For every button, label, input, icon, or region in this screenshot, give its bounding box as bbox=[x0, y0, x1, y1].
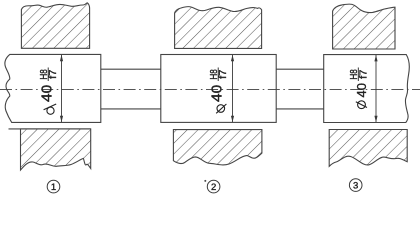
wall s1 top (hatched block) bbox=[21, 3, 89, 49]
callout circle 3 bbox=[349, 179, 362, 192]
svg-text:40: 40 bbox=[40, 85, 56, 102]
centerline (shaft axis) bbox=[0, 89, 420, 91]
arrowheads dimension 1 bbox=[60, 55, 63, 61]
wall s2 bottom (hatched block) bbox=[173, 130, 262, 165]
dimension line section 1 bbox=[61, 55, 63, 122]
svg-text:40: 40 bbox=[210, 85, 226, 102]
wire shaft segment between section 1 and 2 (bottom line) bbox=[101, 108, 161, 110]
dimension label section 1: phi40 H8/f7 (rotated) bbox=[39, 68, 59, 115]
dimension line section 3 bbox=[375, 55, 377, 122]
svg-text:f7: f7 bbox=[48, 69, 59, 78]
callout circle 2 bbox=[207, 180, 220, 193]
section 1 shaft journal rect with break line at left bbox=[5, 54, 101, 122]
dimension label section 2: phi40 H8/f7 (rotated) bbox=[209, 68, 229, 114]
svg-text:1: 1 bbox=[51, 182, 56, 193]
svg-text:f7: f7 bbox=[218, 69, 229, 78]
section 3 shaft journal rect with break line at right bbox=[324, 55, 410, 123]
wall s3 top (hatched block) bbox=[333, 4, 395, 49]
wall s3 bottom (hatched block) bbox=[329, 130, 407, 167]
callout circle 1 bbox=[47, 180, 60, 193]
svg-text:40: 40 bbox=[355, 83, 369, 98]
svg-text:f7: f7 bbox=[358, 69, 369, 78]
wall s2 top (hatched block) bbox=[175, 7, 262, 49]
speck near circle 2 bbox=[204, 180, 206, 182]
wire shaft segment between section 2 and 3 (bottom line) bbox=[276, 108, 324, 110]
section 2 hub rect bbox=[161, 55, 276, 123]
arrowheads dimension 2 bbox=[231, 55, 234, 61]
wire shaft segment between section 2 and 3 (top line) bbox=[276, 68, 324, 70]
arrowheads dimension 3 bbox=[374, 55, 377, 61]
bore line extending left of wall s1 bottom bbox=[9, 128, 92, 130]
dimension label section 3: phi40 H8/f7 (rotated) bbox=[349, 68, 369, 109]
dimension line section 2 bbox=[232, 55, 234, 122]
svg-text:3: 3 bbox=[353, 181, 358, 192]
wall s1 bottom (hatched block) bbox=[9, 129, 92, 170]
svg-text:2: 2 bbox=[211, 182, 216, 193]
wire shaft segment between section 1 and 2 (top line) bbox=[101, 68, 161, 70]
